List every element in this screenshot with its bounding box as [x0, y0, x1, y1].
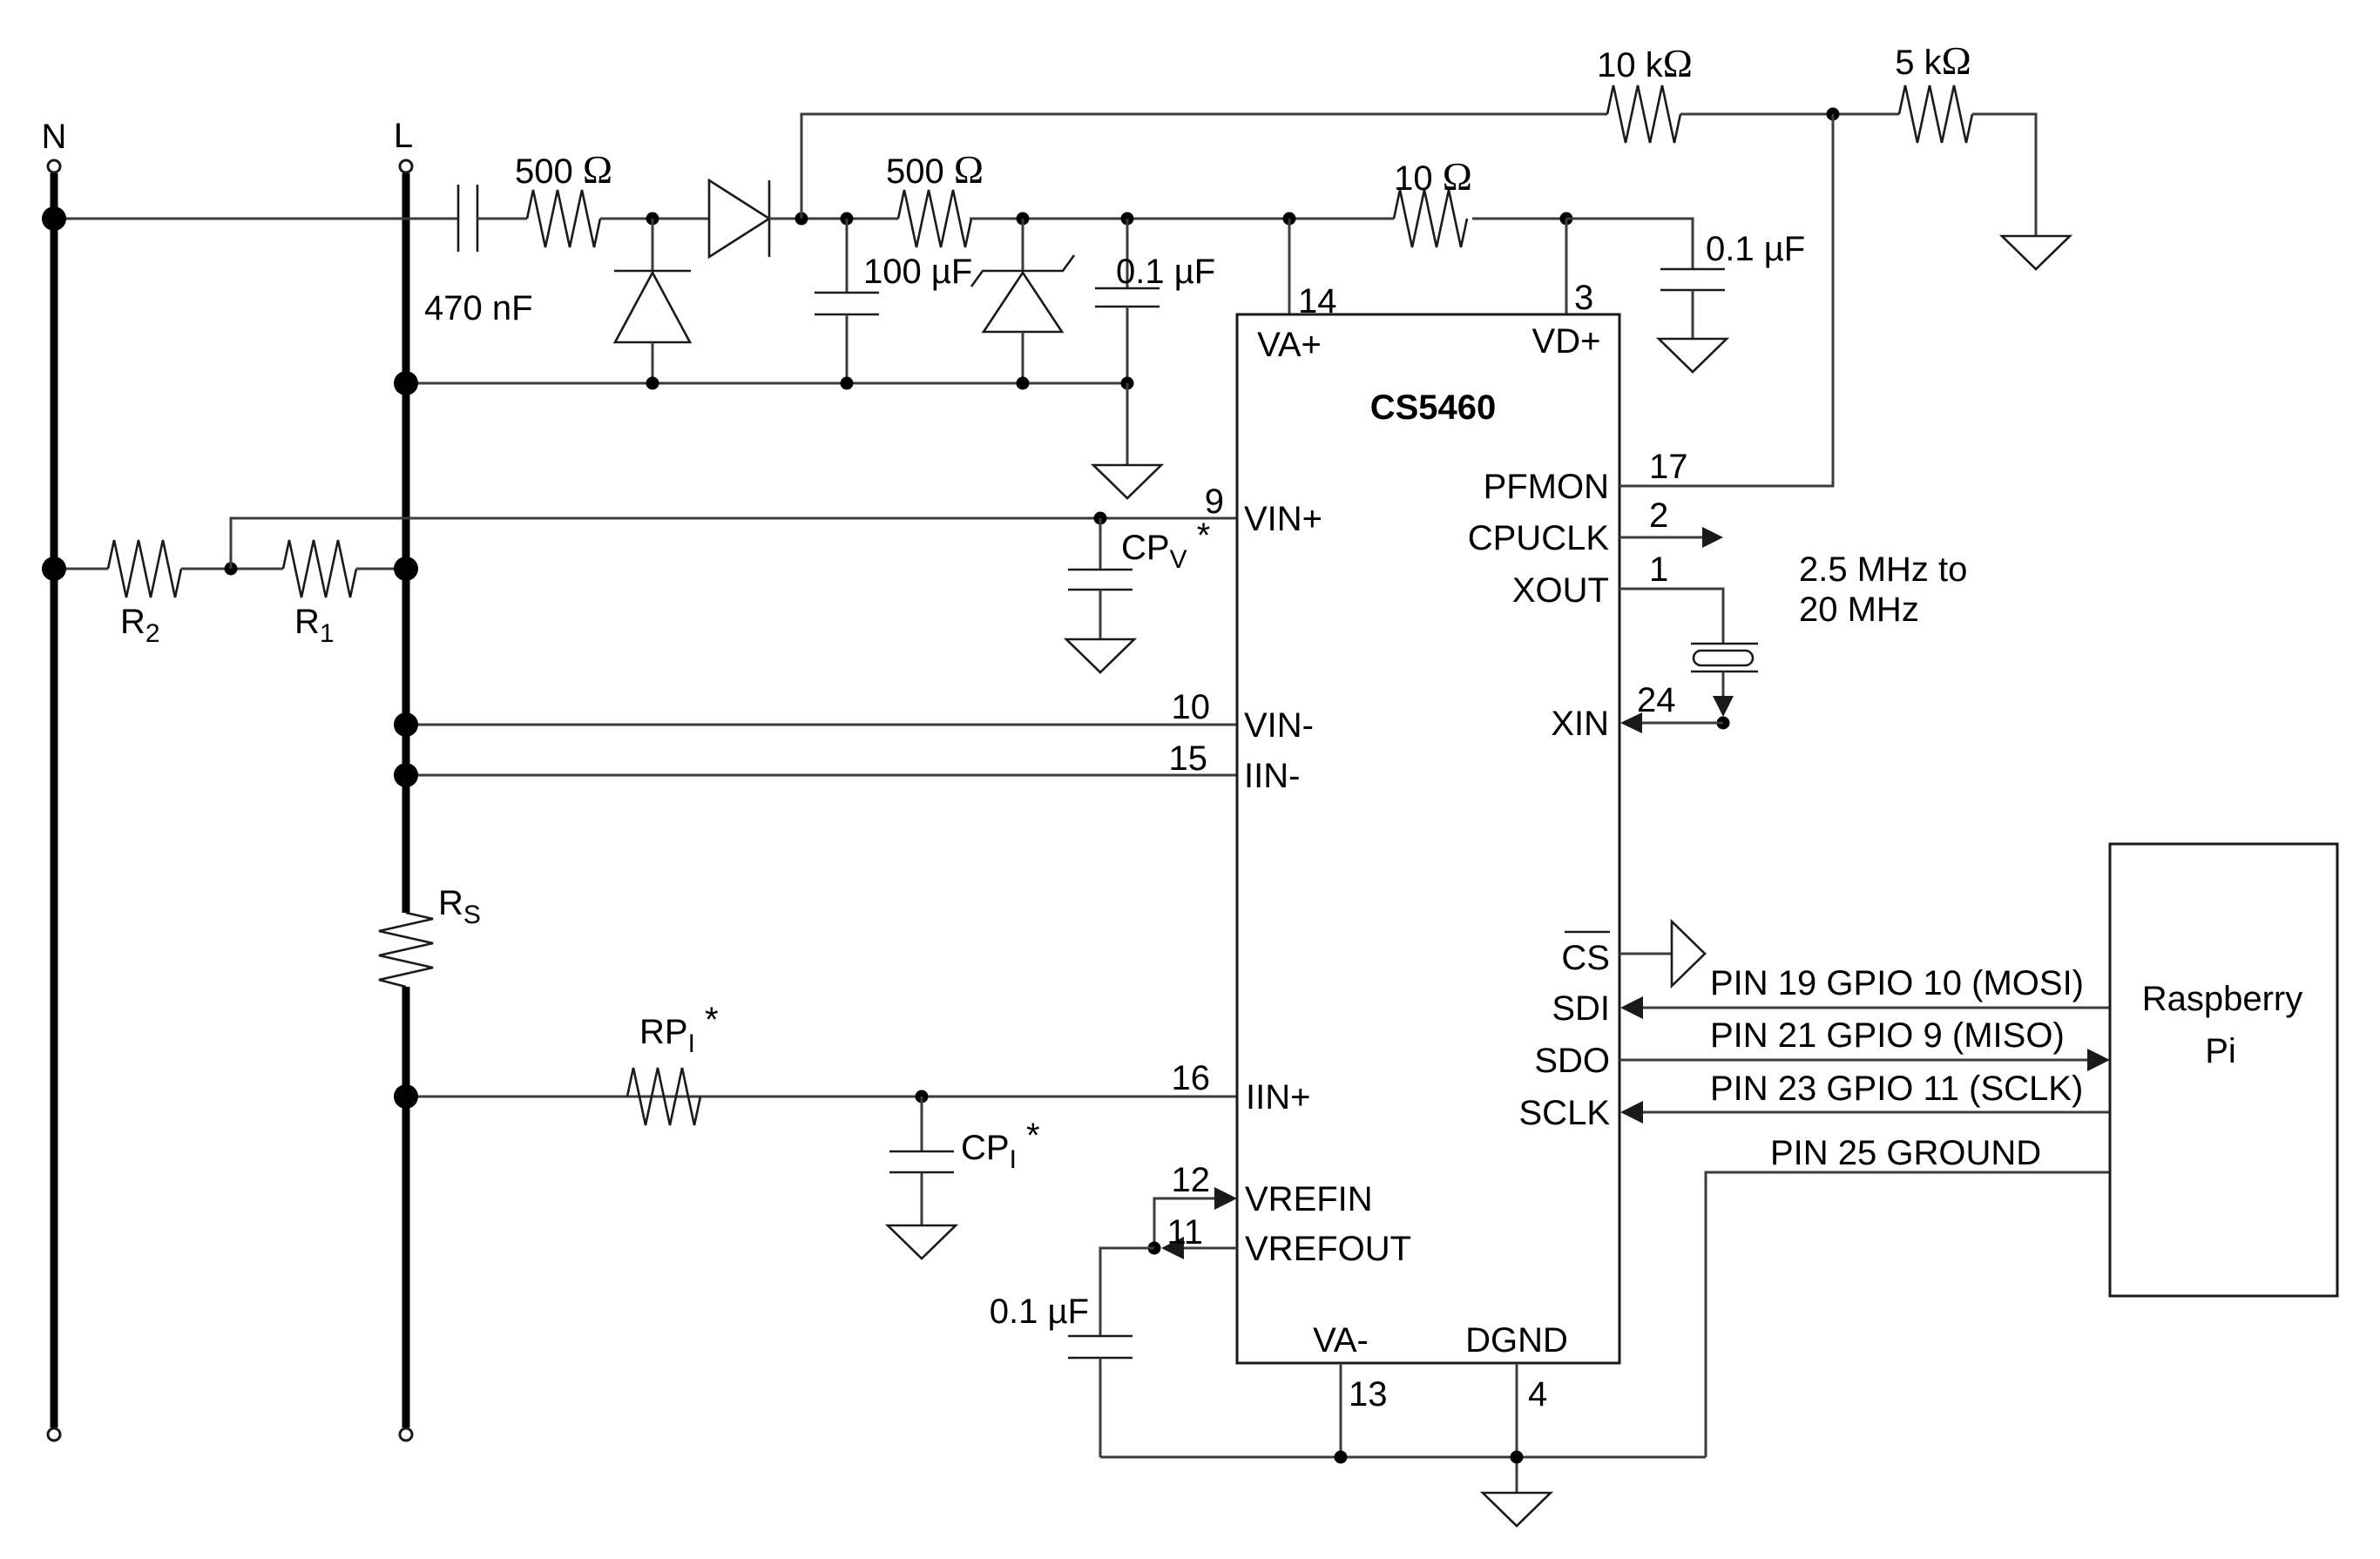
wire to 0.1uF decoupling cap right	[1566, 219, 1693, 269]
junction dot VA-	[1335, 1451, 1348, 1464]
svg-text:4: 4	[1528, 1375, 1547, 1414]
resistor 10 kohm	[1607, 85, 1680, 143]
svg-text:PIN 19 GPIO 10 (MOSI): PIN 19 GPIO 10 (MOSI)	[1710, 964, 2084, 1002]
svg-text:3: 3	[1574, 279, 1593, 317]
junction dot at zener D3 top	[1017, 213, 1030, 226]
node N terminal circle	[48, 160, 60, 172]
node L bottom terminal circle	[400, 1428, 412, 1441]
wire VREFOUT	[1183, 1247, 1237, 1250]
ground symbol at CPV	[1066, 639, 1134, 672]
svg-text:XOUT: XOUT	[1512, 571, 1609, 610]
svg-text:Raspberry: Raspberry	[2142, 980, 2303, 1018]
svg-text:N: N	[42, 118, 67, 156]
svg-text:PIN 23 GPIO 11 (SCLK): PIN 23 GPIO 11 (SCLK)	[1710, 1070, 2083, 1108]
ground symbol at VD+ cap	[1659, 339, 1727, 372]
junction dot on L at VIN-	[394, 712, 418, 737]
buffer triangle at CS	[1672, 921, 1705, 986]
svg-text:VA+: VA+	[1257, 326, 1322, 364]
wire 500ohm#1 to diode D1	[600, 218, 709, 220]
svg-text:SCLK: SCLK	[1519, 1094, 1611, 1132]
wire D1 to 500ohm#2	[769, 218, 898, 220]
capacitor CPI	[921, 1097, 923, 1151]
capacitor 0.1uF VREF	[1068, 1335, 1133, 1338]
svg-text:20 MHz: 20 MHz	[1799, 591, 1919, 629]
svg-text:13: 13	[1349, 1375, 1388, 1414]
junction dot at zener D2 top	[646, 213, 659, 226]
wire crystal to XIN	[1722, 672, 1725, 714]
wire VREFIN elbow	[1154, 1198, 1218, 1248]
svg-text:16: 16	[1172, 1059, 1211, 1097]
wire CPUCLK	[1619, 537, 1704, 539]
resistor 500 ohm #2	[898, 190, 971, 247]
Raspberry Pi box	[2110, 844, 2337, 1296]
svg-text:1: 1	[1649, 550, 1668, 589]
wire vertical up from main wire to top wire	[801, 114, 1607, 219]
junction dot at VD+ stem	[1560, 213, 1573, 226]
svg-text:Pi: Pi	[2205, 1032, 2236, 1070]
wire VREFOUT to 0.1uF	[1100, 1248, 1154, 1336]
junction dot rail at L	[394, 371, 418, 395]
crystal Y1	[1691, 643, 1758, 645]
svg-text:VIN-: VIN-	[1244, 706, 1314, 745]
wire supply ground rail	[406, 382, 1127, 385]
svg-text:470 nF: 470 nF	[424, 289, 533, 327]
diode D2 clamp	[652, 219, 654, 271]
wire main horizontal from N to 470nF	[54, 218, 458, 220]
diode D1 series	[709, 180, 769, 257]
svg-text:IIN+: IIN+	[1246, 1078, 1310, 1117]
wire cap to bottom rail	[1099, 1358, 1102, 1457]
junction dot VREFOUT	[1148, 1242, 1161, 1255]
junction dot XIN node	[1717, 717, 1730, 730]
wire XOUT to crystal	[1619, 589, 1723, 644]
svg-text:SDO: SDO	[1534, 1042, 1610, 1080]
arrowhead VREFOUT	[1161, 1237, 1184, 1259]
svg-text:15: 15	[1169, 739, 1208, 778]
arrowhead SCLK	[1620, 1101, 1643, 1124]
svg-text:10: 10	[1172, 688, 1211, 726]
wire SCLK	[1642, 1111, 2110, 1114]
capacitor 0.1uF at VD+	[1660, 268, 1725, 271]
svg-text:IIN-: IIN-	[1244, 757, 1300, 795]
wire ground return from Pi	[1706, 1172, 2110, 1457]
wire VIN- from L to chip pin 10	[406, 724, 1237, 726]
wire 10k to 5k	[1680, 113, 1899, 116]
svg-text:VIN+: VIN+	[1244, 500, 1322, 538]
resistor 500 ohm #1	[527, 190, 600, 247]
ground symbol at rail	[1093, 465, 1161, 498]
wire SDO	[1619, 1059, 2089, 1062]
wire 500ohm#2 to 10ohm	[970, 218, 1394, 220]
junction dot VIN+ tap	[225, 563, 238, 576]
junction dot at VA+ stem	[1283, 213, 1296, 226]
svg-text:VREFOUT: VREFOUT	[1245, 1230, 1411, 1268]
junction dot on N at R2	[42, 557, 66, 581]
svg-text:10 Ω: 10 Ω	[1394, 154, 1472, 199]
wire L vertical bus upper	[402, 173, 410, 913]
arrowhead down to XIN node	[1713, 696, 1734, 717]
arrowhead XIN	[1620, 712, 1642, 733]
svg-text:100 µF: 100 µF	[863, 253, 972, 291]
wire VA+ pin stem	[1288, 219, 1291, 314]
junction dot DGND	[1511, 1451, 1524, 1464]
svg-text:VA-: VA-	[1313, 1321, 1369, 1360]
wire DGND stem	[1516, 1363, 1518, 1493]
wire 470nF to 500ohm#1	[477, 218, 527, 220]
arrowhead CPUCLK	[1702, 527, 1723, 548]
node L terminal circle	[400, 160, 412, 172]
junction dot CPI	[916, 1090, 929, 1103]
junction dot at 0.1uF cap top	[1121, 213, 1134, 226]
svg-text:PIN 25 GROUND: PIN 25 GROUND	[1770, 1134, 2041, 1172]
arrowhead VREFIN	[1214, 1187, 1237, 1210]
svg-text:9: 9	[1205, 483, 1224, 521]
svg-text:24: 24	[1637, 681, 1676, 719]
svg-text:17: 17	[1649, 448, 1688, 486]
svg-text:0.1 µF: 0.1 µF	[990, 1292, 1089, 1331]
svg-text:VD+: VD+	[1532, 322, 1601, 361]
wire CS to buffer	[1619, 953, 1672, 955]
svg-text:5 kΩ: 5 kΩ	[1895, 38, 1971, 83]
wire rail to ground symbol	[1126, 383, 1129, 465]
junction dot on L at IIN+	[394, 1084, 418, 1109]
wire XIN	[1641, 722, 1723, 725]
zener diode D3	[1022, 219, 1024, 271]
node N bottom terminal circle	[48, 1428, 60, 1441]
wire R2 to R1	[181, 568, 283, 570]
junction dot on N at main wire	[42, 206, 66, 231]
resistor R2	[54, 568, 108, 570]
arrowhead SDI	[1620, 996, 1643, 1019]
capacitor 0.1uF left	[1126, 219, 1129, 288]
junction dot rail at D3	[1017, 377, 1030, 390]
svg-text:L: L	[394, 117, 413, 155]
wire IIN+ from L to chip pin 16	[406, 1096, 1237, 1098]
svg-text:PIN 21 GPIO 9 (MISO): PIN 21 GPIO 9 (MISO)	[1710, 1016, 2065, 1055]
ground symbol at CPI	[888, 1225, 956, 1259]
svg-text:CS5460: CS5460	[1370, 388, 1497, 427]
wire N vertical bus	[51, 173, 58, 1427]
svg-text:0.1 µF: 0.1 µF	[1116, 253, 1215, 291]
wire VA- stem	[1340, 1363, 1342, 1457]
capacitor 470 nF	[457, 185, 460, 252]
junction dot at 100uF top	[841, 213, 854, 226]
wire cap to ground	[1692, 290, 1694, 339]
wire bottom ground rail	[1100, 1456, 1706, 1459]
junction dot on L at IIN-	[394, 763, 418, 787]
svg-text:11: 11	[1166, 1213, 1203, 1252]
junction dot on L at R1	[394, 557, 418, 581]
capacitor 100uF	[846, 219, 849, 293]
svg-text:0.1 µF: 0.1 µF	[1706, 230, 1805, 268]
svg-text:500 Ω: 500 Ω	[515, 147, 612, 192]
svg-text:2: 2	[1649, 496, 1668, 535]
junction dot feed to top wire	[795, 213, 808, 226]
svg-text:CPUCLK: CPUCLK	[1468, 519, 1610, 557]
junction dot CPV	[1094, 512, 1107, 525]
svg-text:SDI: SDI	[1552, 989, 1610, 1028]
capacitor CPV	[1099, 518, 1102, 570]
svg-text:XIN: XIN	[1551, 705, 1609, 743]
resistor RS (shunt, on L bus)	[379, 913, 433, 987]
wire VD+ pin stem	[1565, 219, 1568, 314]
wire IIN- from L to chip pin 15	[406, 774, 1237, 777]
resistor 10 ohm	[1394, 190, 1467, 247]
ground symbol at DGND	[1483, 1493, 1551, 1526]
wire VIN+ from tap to chip pin 9	[231, 518, 1237, 569]
svg-text:CS: CS	[1561, 939, 1610, 977]
svg-text:500 Ω: 500 Ω	[886, 147, 984, 192]
wire R1 to L	[356, 568, 406, 570]
junction dot rail at 100uF	[841, 377, 854, 390]
IC CS5460 body	[1237, 314, 1619, 1363]
wire PFMON to divider	[1619, 114, 1833, 486]
svg-text:12: 12	[1172, 1161, 1211, 1199]
wire SDI	[1642, 1007, 2110, 1009]
junction dot PFMON tap	[1827, 108, 1840, 121]
svg-text:2.5 MHz to: 2.5 MHz to	[1799, 550, 1967, 589]
resistor R1	[283, 540, 356, 597]
svg-text:PFMON: PFMON	[1484, 468, 1609, 506]
svg-text:VREFIN: VREFIN	[1245, 1180, 1373, 1218]
resistor 5 kohm	[1899, 85, 1972, 143]
arrowhead SDO	[2087, 1049, 2110, 1071]
svg-text:10 kΩ: 10 kΩ	[1597, 41, 1693, 85]
svg-text:DGND: DGND	[1465, 1321, 1568, 1360]
wire L vertical bus lower	[402, 987, 410, 1427]
resistor RPI (drawn over wire)	[627, 1068, 700, 1125]
wire 10ohm to VD+ tap	[1472, 218, 1566, 220]
wire 5k to ground	[1972, 114, 2036, 236]
ground symbol at 5k	[2002, 236, 2070, 269]
junction dot rail end	[1121, 377, 1134, 390]
junction dot rail at D2	[646, 377, 659, 390]
